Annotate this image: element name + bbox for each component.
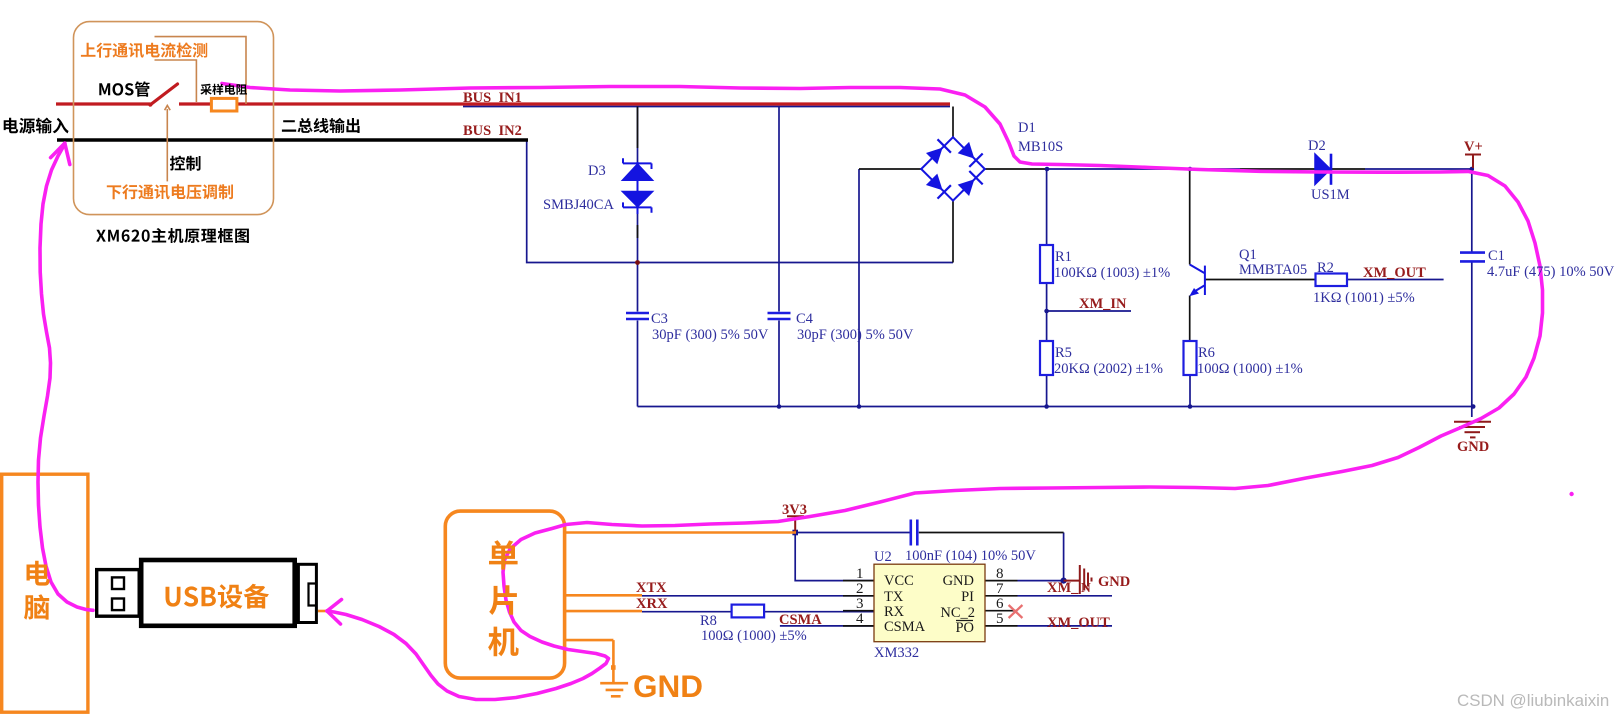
svg-text:8: 8	[996, 566, 1004, 582]
svg-text:MB10S: MB10S	[1018, 139, 1063, 155]
svg-text:MMBTA05: MMBTA05	[1239, 262, 1307, 278]
svg-text:R1: R1	[1055, 249, 1072, 265]
svg-text:BUS IN1: BUS IN1	[463, 90, 522, 106]
svg-text:XRX: XRX	[636, 596, 668, 612]
svg-text:SMBJ40CA: SMBJ40CA	[543, 197, 614, 213]
svg-text:100KΩ (1003) ±1%: 100KΩ (1003) ±1%	[1054, 265, 1170, 281]
svg-text:US1M: US1M	[1311, 187, 1350, 203]
svg-text:U2: U2	[874, 549, 892, 565]
svg-text:XM_OUT: XM_OUT	[1047, 615, 1110, 631]
svg-text:3: 3	[856, 596, 864, 612]
svg-text:D2: D2	[1308, 138, 1326, 154]
svg-text:XM_: XM_	[1047, 580, 1079, 596]
svg-text:BUS IN2: BUS IN2	[463, 123, 522, 139]
svg-text:Q1: Q1	[1239, 247, 1257, 263]
svg-text:PO: PO	[955, 620, 974, 636]
svg-text:GND: GND	[943, 573, 974, 589]
svg-text:3V3: 3V3	[782, 502, 807, 518]
svg-text:RX: RX	[884, 604, 905, 620]
svg-text:CSMA: CSMA	[779, 612, 822, 628]
svg-text:CSDN @liubinkaixin: CSDN @liubinkaixin	[1457, 691, 1609, 710]
svg-text:1KΩ (1001) ±5%: 1KΩ (1001) ±5%	[1313, 290, 1415, 306]
svg-text:30pF (300) 5% 50V: 30pF (300) 5% 50V	[652, 327, 769, 343]
svg-text:1: 1	[856, 566, 864, 582]
svg-text:7: 7	[996, 581, 1004, 597]
svg-text:R8: R8	[700, 613, 717, 629]
svg-text:GND: GND	[633, 668, 703, 704]
svg-text:R5: R5	[1055, 345, 1072, 361]
svg-text:4: 4	[856, 611, 864, 627]
svg-text:TX: TX	[884, 589, 904, 605]
svg-text:N: N	[1081, 580, 1091, 595]
svg-text:2: 2	[856, 581, 864, 597]
svg-text:PI: PI	[961, 589, 974, 605]
svg-text:R6: R6	[1198, 345, 1215, 361]
svg-text:XTX: XTX	[636, 580, 667, 596]
svg-text:CSMA: CSMA	[884, 619, 926, 635]
svg-text:6: 6	[996, 596, 1004, 612]
svg-text:5: 5	[996, 611, 1004, 627]
svg-text:C4: C4	[796, 311, 814, 327]
svg-text:C1: C1	[1488, 248, 1505, 264]
svg-text:20KΩ (2002) ±1%: 20KΩ (2002) ±1%	[1054, 361, 1163, 377]
svg-text:R2: R2	[1317, 260, 1334, 276]
svg-text:GND: GND	[1457, 439, 1489, 455]
svg-text:NC_2: NC_2	[940, 605, 975, 621]
svg-text:4.7uF (475) 10% 50V: 4.7uF (475) 10% 50V	[1487, 264, 1615, 280]
svg-text:100Ω (1000) ±5%: 100Ω (1000) ±5%	[701, 628, 807, 644]
svg-text:V+: V+	[1464, 139, 1483, 155]
svg-text:D3: D3	[588, 163, 606, 179]
svg-text:100Ω (1000) ±1%: 100Ω (1000) ±1%	[1197, 361, 1303, 377]
svg-text:D1: D1	[1018, 120, 1036, 136]
svg-text:GND: GND	[1098, 574, 1130, 590]
svg-text:VCC: VCC	[884, 573, 914, 589]
svg-text:100nF (104) 10% 50V: 100nF (104) 10% 50V	[905, 548, 1036, 564]
svg-text:C3: C3	[651, 311, 668, 327]
svg-text:XM332: XM332	[874, 645, 919, 661]
svg-text:XM_IN: XM_IN	[1079, 296, 1127, 312]
svg-text:XM_OUT: XM_OUT	[1363, 265, 1426, 281]
svg-text:30pF (300) 5% 50V: 30pF (300) 5% 50V	[797, 327, 914, 343]
